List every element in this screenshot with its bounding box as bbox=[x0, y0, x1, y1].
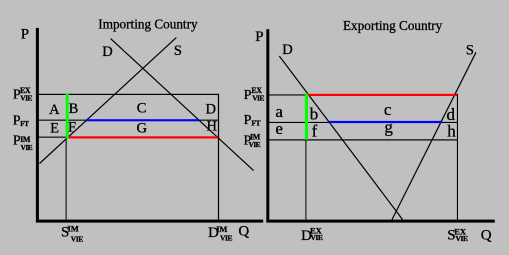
svg-text:Exporting Country: Exporting Country bbox=[343, 18, 443, 33]
left S_VIE vertical guide line bbox=[66, 139, 67, 220]
left P axis bbox=[36, 28, 39, 220]
left green quota bar at S_VIE bbox=[66, 94, 69, 139]
right price label P_FT bbox=[244, 113, 261, 128]
svg-text:S: S bbox=[174, 43, 182, 59]
svg-text:Q: Q bbox=[238, 224, 249, 240]
svg-text:VIE: VIE bbox=[311, 233, 324, 242]
left price label P_VIE_IM bbox=[13, 134, 33, 153]
left D_VIE vertical guide line (box right edge) bbox=[218, 94, 219, 220]
left supply curve S bbox=[40, 38, 177, 164]
svg-text:G: G bbox=[137, 121, 148, 137]
right P axis bbox=[266, 29, 269, 220]
svg-text:E: E bbox=[50, 120, 59, 136]
svg-text:A: A bbox=[49, 102, 60, 118]
svg-text:g: g bbox=[384, 118, 393, 137]
svg-text:VIE: VIE bbox=[249, 140, 261, 149]
svg-text:b: b bbox=[310, 104, 319, 123]
left price label P_FT bbox=[13, 113, 29, 128]
left red VIE imports segment bbox=[66, 136, 219, 138]
svg-text:FT: FT bbox=[20, 120, 29, 128]
svg-text:S: S bbox=[466, 42, 474, 58]
svg-text:VIE: VIE bbox=[71, 234, 84, 243]
right D_VIE vertical guide line bbox=[305, 140, 306, 220]
svg-text:VIE: VIE bbox=[20, 94, 32, 103]
right P_VIE_EX price line (black) bbox=[269, 94, 306, 95]
svg-text:B: B bbox=[69, 101, 79, 117]
right green quota bar at D_VIE bbox=[305, 94, 308, 140]
right blue free-trade exports segment bbox=[329, 121, 443, 123]
svg-text:P: P bbox=[244, 113, 252, 128]
right red VIE exports segment bbox=[306, 94, 457, 96]
right price label P_VIE_EX bbox=[244, 86, 265, 103]
svg-text:F: F bbox=[68, 119, 76, 135]
svg-text:IM: IM bbox=[68, 224, 79, 234]
right P_VIE_IM price line (black) bbox=[269, 139, 457, 140]
svg-text:D: D bbox=[282, 42, 292, 58]
svg-text:VIE: VIE bbox=[21, 143, 33, 152]
svg-text:VIE: VIE bbox=[252, 94, 264, 103]
svg-text:H: H bbox=[207, 119, 218, 135]
left P_FT price line (black) bbox=[38, 120, 88, 121]
left price label P_VIE_EX bbox=[13, 86, 33, 102]
left P_VIE_IM price line (black) bbox=[38, 137, 67, 138]
svg-text:Q: Q bbox=[481, 228, 492, 244]
svg-text:D: D bbox=[102, 44, 112, 60]
svg-text:Importing Country: Importing Country bbox=[98, 16, 198, 31]
right S_VIE vertical guide line (box right edge) bbox=[457, 94, 458, 220]
left quantity label S_VIE_IM bbox=[61, 224, 83, 244]
right supply curve S bbox=[392, 52, 476, 219]
svg-text:e: e bbox=[275, 119, 283, 138]
right price label P_VIE_IM bbox=[244, 133, 261, 150]
left P_VIE_EX price line (black) bbox=[38, 94, 220, 95]
left blue free-trade imports segment bbox=[86, 119, 199, 121]
svg-text:f: f bbox=[312, 122, 318, 141]
right quantity label D_VIE_EX bbox=[301, 226, 323, 245]
svg-text:P: P bbox=[21, 27, 29, 43]
left quantity label D_VIE_IM bbox=[208, 224, 233, 242]
right quantity label S_VIE_EX bbox=[447, 226, 468, 243]
right Q axis bbox=[266, 220, 495, 223]
svg-text:VIE: VIE bbox=[220, 234, 233, 243]
svg-text:P: P bbox=[255, 29, 263, 45]
svg-text:C: C bbox=[137, 100, 147, 116]
svg-text:D: D bbox=[205, 101, 215, 117]
left demand curve D bbox=[111, 39, 254, 171]
right demand curve D bbox=[279, 56, 402, 220]
svg-text:FT: FT bbox=[251, 118, 260, 127]
left Q axis bbox=[36, 220, 263, 223]
svg-text:a: a bbox=[275, 102, 283, 121]
svg-text:VIE: VIE bbox=[456, 234, 469, 243]
right P_FT price line (black) bbox=[269, 122, 329, 123]
svg-text:c: c bbox=[384, 100, 392, 119]
svg-text:h: h bbox=[447, 121, 456, 140]
